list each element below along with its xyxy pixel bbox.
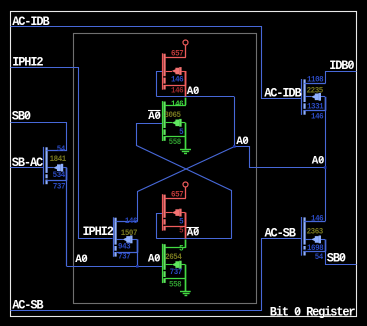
junction node A0 riser: [233, 145, 236, 148]
Q2363 terminal numbers: [307, 214, 324, 262]
node A0 label (top inverter output): [187, 86, 199, 98]
svg-text:5: 5: [179, 226, 184, 235]
port label AC-IDB (left): [12, 15, 50, 30]
port label IPHI2 (left): [12, 55, 43, 70]
svg-text:737: 737: [118, 252, 131, 261]
svg-text:1507: 1507: [121, 229, 138, 238]
svg-text:A0: A0: [75, 254, 87, 266]
svg-text:A0: A0: [187, 86, 199, 98]
svg-text:146: 146: [171, 86, 184, 95]
svg-text:737: 737: [170, 268, 183, 277]
wire Q2654 drain to node 5: [185, 240, 187, 248]
transistor Q2235 (AC-IDB pass): [301, 79, 326, 115]
svg-text:AC-IDB: AC-IDB: [264, 86, 302, 101]
Q3065 terminal numbers: [164, 100, 183, 148]
wire node A0 vertical riser: [234, 97, 236, 147]
node A0 label (right column): [312, 156, 324, 168]
ground (top inverter): [180, 137, 191, 154]
wire node A0 horizontal (top inverter output): [156, 96, 234, 98]
svg-text:534: 534: [53, 171, 66, 180]
transistor Q2363 (AC-SB pass): [301, 217, 326, 256]
Q1841 terminal numbers: [50, 144, 67, 191]
transistor Q657b (pull-up, bottom inverter): [162, 194, 186, 231]
svg-text:54: 54: [57, 144, 66, 153]
svg-text:SB-AC: SB-AC: [12, 156, 44, 171]
wire node A0 diagonal to Q1507: [138, 147, 235, 222]
svg-text:2363: 2363: [307, 227, 324, 236]
node A0 label (bottom left wire): [75, 254, 87, 266]
svg-text:1331: 1331: [307, 102, 324, 111]
junction node 737 wire: [136, 265, 139, 268]
transistor Q1507 (IPHI2 pass): [113, 217, 138, 256]
port label SB0 (right): [327, 251, 346, 266]
wire node 5 horizontal (bottom inverter output): [156, 238, 232, 240]
Q657b terminal numbers: [171, 190, 184, 235]
svg-text:2235: 2235: [307, 86, 324, 95]
svg-text:A0: A0: [148, 254, 160, 266]
Q1507 terminal numbers: [118, 217, 138, 262]
svg-text:IPHI2: IPHI2: [83, 225, 114, 240]
svg-text:146: 146: [311, 214, 324, 223]
svg-text:2654: 2654: [165, 253, 182, 262]
wire IDB0 (right) to Q2235 drain: [326, 72, 357, 84]
svg-text:AC-IDB: AC-IDB: [12, 15, 50, 30]
Q657a terminal numbers: [171, 49, 184, 95]
svg-text:A0: A0: [148, 111, 160, 123]
svg-text:Bit 0 Register: Bit 0 Register: [270, 305, 355, 320]
svg-text:146: 146: [311, 112, 324, 121]
svg-text:558: 558: [169, 280, 182, 289]
vcc terminal circle (bottom pull-up): [183, 182, 188, 198]
port label AC-SB (left): [12, 298, 44, 313]
node A0 label (riser junction): [236, 136, 248, 148]
svg-text:657: 657: [171, 49, 184, 58]
port label SB0 (left): [12, 109, 31, 124]
svg-text:A0: A0: [312, 156, 324, 168]
port label AC-SB (right): [265, 226, 297, 241]
svg-text:3065: 3065: [164, 111, 181, 120]
svg-text:1108: 1108: [307, 75, 324, 84]
port label IDB0 (right): [329, 58, 354, 73]
node A0-bar label (gate of Q3065): [148, 111, 160, 123]
transistor Q3065 (driver, top inverter): [162, 101, 186, 141]
wire Q1507 source down to node 737: [137, 239, 139, 266]
svg-text:SB0: SB0: [12, 109, 31, 124]
port label AC-IDB (right): [264, 86, 302, 101]
svg-text:737: 737: [53, 182, 66, 191]
svg-text:AC-SB: AC-SB: [12, 298, 44, 313]
wire SB0 (left) to Q1841 drain: [11, 123, 67, 151]
svg-text:A0: A0: [236, 136, 248, 148]
transistor Q1841 (SB-AC pass): [43, 147, 67, 185]
svg-text:A0: A0: [187, 227, 199, 239]
wire Q657b source to node 5: [185, 213, 187, 239]
wire Q657a source to node A0: [185, 71, 187, 97]
wire node 5 diagonal cross-couple to gate of Q3065: [137, 124, 232, 239]
title Bit 0 Register: [270, 305, 355, 320]
svg-text:146: 146: [171, 100, 184, 109]
transistor Q657a (pull-up, top inverter): [162, 53, 186, 89]
wire IPHI2 clock to gate of Q1507: [11, 68, 113, 239]
Q2654 terminal numbers: [165, 244, 184, 289]
port label IPHI2 (at gate of Q1507): [83, 225, 114, 240]
svg-text:SB0: SB0: [327, 251, 346, 266]
wire gate tie of pull-up Q657a to node A0: [157, 72, 163, 97]
svg-text:146: 146: [125, 217, 138, 226]
wire SB-AC control to gate of Q1841: [10, 167, 43, 169]
Q2235 terminal numbers: [307, 75, 324, 122]
port label SB-AC (left): [12, 156, 44, 171]
wire gate tie of pull-up Q657b to node 5: [157, 214, 163, 239]
svg-text:54: 54: [315, 252, 324, 261]
register cell boundary box: [74, 34, 257, 304]
svg-text:5: 5: [179, 127, 184, 136]
wire node 737 horizontal to gate of Q2654: [67, 266, 163, 268]
node A0-bar label (bottom inverter output): [187, 227, 199, 239]
node A0 label (gate of Q2654): [148, 254, 160, 266]
svg-text:146: 146: [171, 75, 184, 84]
wire node A0 vertical between Q2235 and Q2363: [325, 97, 327, 221]
svg-text:558: 558: [169, 138, 182, 147]
wire Q3065 drain to node A0: [185, 98, 187, 106]
wire node A0 to right-side pass transistors: [235, 147, 326, 168]
transistor Q2654 (driver, bottom inverter): [162, 244, 186, 283]
wire SB0 (right) from Q2363 source: [326, 252, 357, 265]
wire AC-IDB control (top) to gate of Q2235: [11, 27, 302, 99]
svg-text:AC-SB: AC-SB: [265, 226, 297, 241]
svg-text:1841: 1841: [50, 155, 67, 164]
svg-text:943: 943: [118, 242, 131, 251]
vcc terminal circle (top pull-up): [183, 40, 188, 57]
ground (bottom inverter): [180, 279, 191, 296]
junction node A0 right column: [324, 166, 327, 169]
wire AC-SB control (bottom) to gate of Q2363: [11, 239, 302, 311]
wire Q1841 source down to node 737: [66, 168, 68, 267]
svg-text:IPHI2: IPHI2: [12, 55, 43, 70]
svg-text:657: 657: [171, 190, 184, 199]
